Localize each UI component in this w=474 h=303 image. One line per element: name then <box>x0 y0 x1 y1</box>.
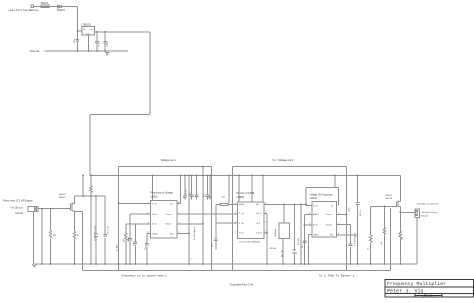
svg-text:0.33u: 0.33u <box>74 38 76 43</box>
svg-text:BS170: BS170 <box>59 197 66 199</box>
svg-text:47u: 47u <box>204 194 206 197</box>
svg-text:Cun In: Cun In <box>166 214 172 216</box>
svg-text:10k 1%: 10k 1% <box>186 189 188 196</box>
svg-text:Frequency in to square wave 1: Frequency in to square wave 1 <box>122 274 168 278</box>
svg-text:7: 7 <box>235 232 236 234</box>
svg-text:5: 5 <box>338 223 339 225</box>
svg-text:500mA: 500mA <box>41 2 49 5</box>
svg-text:Amp 2: Amp 2 <box>313 213 320 216</box>
svg-text:C1 100n 5.1 6.3v: C1 100n 5.1 6.3v <box>95 226 97 241</box>
svg-text:LGND: LGND <box>152 233 158 235</box>
svg-text:6: 6 <box>309 223 310 225</box>
svg-text:3: 3 <box>147 232 148 234</box>
svg-text:10n: 10n <box>212 244 214 247</box>
svg-text:1k Regler: 1k Regler <box>275 228 277 237</box>
svg-text:Thresh: Thresh <box>165 224 171 226</box>
svg-text:1M: 1M <box>53 235 56 237</box>
svg-text:R/C: R/C <box>170 233 174 235</box>
svg-text:1: 1 <box>178 213 179 215</box>
svg-text:10-05-2011: 10-05-2011 <box>423 296 434 298</box>
svg-text:LM331: LM331 <box>150 196 158 199</box>
svg-text:Thresh: Thresh <box>326 225 332 227</box>
svg-text:Ground: Ground <box>30 49 40 53</box>
svg-text:1N4007: 1N4007 <box>57 9 66 12</box>
svg-text:10n: 10n <box>133 243 135 246</box>
svg-text:5v = Voltage out 2: 5v = Voltage out 2 <box>273 158 294 162</box>
svg-text:5: 5 <box>178 223 179 225</box>
svg-text:1: 1 <box>338 213 339 215</box>
svg-text:7 Ind: 7 Ind <box>152 203 156 205</box>
svg-text:LM358: LM358 <box>237 196 245 199</box>
svg-text:Com: Com <box>86 34 90 36</box>
svg-text:100n: 100n <box>128 238 130 242</box>
svg-text:LM331: LM331 <box>310 197 318 200</box>
svg-text:Cun In: Cun In <box>326 214 332 216</box>
svg-text:4.7uF Polyprop: 4.7uF Polyprop <box>194 226 196 240</box>
svg-text:10k 1%: 10k 1% <box>360 210 362 217</box>
svg-text:1M: 1M <box>124 239 126 242</box>
svg-text:6: 6 <box>235 222 236 224</box>
svg-text:10k: 10k <box>381 242 383 245</box>
svg-text:Voltage To Frequency: Voltage To Frequency <box>310 193 334 196</box>
svg-text:4: 4 <box>309 213 310 215</box>
svg-text:47k 10k: 47k 10k <box>270 248 277 250</box>
svg-text:Rst: Rst <box>256 203 259 206</box>
svg-text:4: 4 <box>147 213 148 215</box>
svg-text:6 Ind: 6 Ind <box>313 225 317 227</box>
svg-text:Frequency Multiplier: Frequency Multiplier <box>387 281 446 287</box>
svg-text:BS170: BS170 <box>386 198 393 200</box>
svg-text:R/C: R/C <box>330 234 334 236</box>
svg-text:8: 8 <box>338 205 339 207</box>
svg-text:7 Ind: 7 Ind <box>313 205 317 207</box>
svg-text:6: 6 <box>148 223 149 225</box>
svg-text:+5v Rail: +5v Rail <box>117 244 119 252</box>
svg-text:4k7 10v: 4k7 10v <box>282 250 284 257</box>
svg-text:Pulse from LT1 V8 Engine: Pulse from LT1 V8 Engine <box>3 198 33 202</box>
svg-text:+12v from Car Battery: +12v from Car Battery <box>8 8 39 12</box>
svg-text:100n: 100n <box>348 208 350 212</box>
svg-text:47u: 47u <box>189 193 191 196</box>
svg-text:7+v 15v p-p: 7+v 15v p-p <box>10 207 23 210</box>
svg-text:Voltage out 1: Voltage out 1 <box>161 158 177 162</box>
svg-text:7: 7 <box>148 202 149 204</box>
svg-text:5: 5 <box>265 222 266 224</box>
svg-text:Out: Out <box>90 28 94 31</box>
svg-text:8: 8 <box>265 203 266 205</box>
svg-text:5v 2.7kHz To Square 1: 5v 2.7kHz To Square 1 <box>319 274 355 278</box>
svg-text:+5v Pack 12v p-p: +5v Pack 12v p-p <box>421 212 439 214</box>
svg-text:Peter J. Vis: Peter J. Vis <box>387 288 424 294</box>
svg-text:2: 2 <box>338 233 339 235</box>
svg-text:In: In <box>83 29 85 31</box>
svg-text:10n: 10n <box>145 247 147 250</box>
svg-text:6 Ind: 6 Ind <box>152 224 156 226</box>
svg-text:Frequency to Voltage: Frequency to Voltage <box>150 192 173 195</box>
svg-text:4: 4 <box>235 203 236 205</box>
svg-text:BS107: BS107 <box>386 195 393 197</box>
svg-text:2: 2 <box>190 259 191 261</box>
svg-text:100n: 100n <box>107 43 109 47</box>
svg-text:1M: 1M <box>401 237 403 240</box>
svg-text:Vdd b: Vdd b <box>239 204 245 206</box>
svg-text:Vs: Vs <box>331 205 333 207</box>
svg-text:LGND: LGND <box>313 234 319 236</box>
svg-text:BS107: BS107 <box>59 194 66 196</box>
svg-text:1: 1 <box>265 232 266 234</box>
svg-text:Ground: Ground <box>15 212 24 215</box>
svg-text:10u+ 16v: 10u+ 16v <box>108 226 110 234</box>
svg-text:(Inverter MC14069UB): (Inverter MC14069UB) <box>240 241 260 244</box>
svg-text:2 Trg: 2 Trg <box>239 213 244 215</box>
svg-text:1k: 1k <box>368 248 370 250</box>
svg-text:©copyright Peter J Vis: ©copyright Peter J Vis <box>230 283 254 286</box>
svg-text:HF Osc Unit 555: HF Osc Unit 555 <box>237 192 255 195</box>
svg-text:L7805CV: L7805CV <box>81 24 91 27</box>
svg-text:Ground: Ground <box>421 215 429 218</box>
svg-text:47u 10v: 47u 10v <box>298 238 300 245</box>
svg-text:2: 2 <box>235 212 236 214</box>
svg-text:2: 2 <box>178 232 179 234</box>
svg-text:3: 3 <box>265 212 266 214</box>
svg-text:8: 8 <box>178 202 179 204</box>
svg-text:7 Dis: 7 Dis <box>239 233 244 235</box>
svg-text:10n: 10n <box>302 245 304 248</box>
svg-text:6 Thr: 6 Thr <box>239 223 244 225</box>
svg-text:1 Gnd: 1 Gnd <box>256 233 261 235</box>
svg-text:4.7uF Polyprop: 4.7uF Polyprop <box>354 232 356 246</box>
svg-text:To Engine Control Unit: To Engine Control Unit <box>417 202 439 205</box>
svg-text:1k: 1k <box>77 235 79 237</box>
